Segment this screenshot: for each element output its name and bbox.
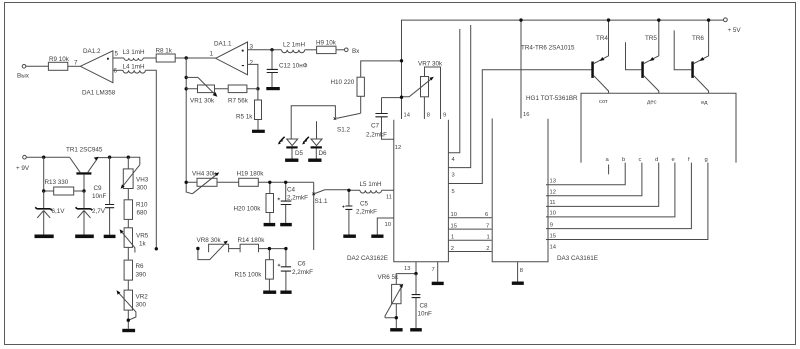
- svg-text:L5 1mH: L5 1mH: [360, 181, 383, 188]
- ground R5: [252, 130, 265, 133]
- svg-text:HG1 TOT-5361BR: HG1 TOT-5361BR: [526, 95, 578, 102]
- svg-text:VR2: VR2: [136, 294, 149, 301]
- svg-text:3: 3: [452, 173, 455, 179]
- svg-text:1k: 1k: [139, 241, 147, 248]
- svg-text:7: 7: [432, 267, 435, 273]
- terminal +9V: [16, 155, 30, 172]
- svg-text:680: 680: [137, 210, 148, 217]
- svg-text:7: 7: [74, 60, 78, 67]
- ground C5: [343, 235, 356, 238]
- capacitor C9 10nF: [92, 157, 114, 235]
- svg-text:C12 10нФ: C12 10нФ: [279, 63, 308, 70]
- LED D5: [278, 137, 304, 159]
- svg-text:D6: D6: [319, 150, 328, 157]
- wire pin8: [423, 97, 425, 119]
- svg-text:R5 1k: R5 1k: [236, 114, 253, 121]
- wire pin7 to ground: [437, 262, 439, 282]
- wire pin3 out: [248, 49, 282, 51]
- svg-text:6: 6: [114, 68, 118, 75]
- trimmer VR2 300: [117, 280, 149, 320]
- wire pin16 riser: [520, 20, 522, 118]
- transistor TR4: [591, 20, 608, 93]
- segment a stub: [608, 165, 610, 175]
- inductor L2 1mH: [282, 42, 306, 53]
- svg-text:ед: ед: [701, 100, 708, 106]
- svg-text:дес: дес: [647, 100, 657, 106]
- svg-text:C6: C6: [298, 261, 307, 268]
- svg-text:d: d: [655, 157, 658, 163]
- ground zener1: [35, 235, 54, 239]
- svg-text:DA3 CA3161E: DA3 CA3161E: [557, 255, 598, 262]
- transistor TR1 2SC945: [66, 147, 110, 192]
- wire: [143, 57, 156, 59]
- wire +9V rail: [26, 156, 69, 158]
- wire C4/H19 row: [186, 181, 314, 183]
- wire DA2 pin15 to DA3 pin7: [448, 228, 491, 230]
- capacitor C8 10nF: [412, 274, 432, 329]
- svg-text:VR8 30k: VR8 30k: [197, 237, 222, 244]
- svg-text:+ 5V: + 5V: [728, 27, 742, 34]
- svg-text:DA1.1: DA1.1: [214, 41, 232, 48]
- wire S1.1 common vertical: [313, 182, 315, 250]
- svg-text:13: 13: [550, 179, 556, 185]
- capacitor C6 2,2mkF: [278, 249, 313, 291]
- op-amp DA1.2: [74, 48, 119, 97]
- trimmer VH3 300: [121, 157, 149, 191]
- svg-text:12: 12: [550, 190, 556, 196]
- svg-text:TR6: TR6: [692, 35, 704, 42]
- svg-text:VR7 30k: VR7 30k: [418, 61, 443, 68]
- wire pin3 riser: [448, 25, 470, 168]
- svg-text:10: 10: [451, 212, 457, 218]
- transistor TR6: [674, 20, 708, 93]
- svg-text:VR6 5k: VR6 5k: [378, 274, 400, 281]
- svg-text:1: 1: [487, 235, 490, 241]
- svg-text:14: 14: [550, 244, 557, 250]
- wire DA3 pin15 to segment g: [546, 163, 708, 240]
- ground zener2: [75, 235, 94, 239]
- svg-text:2,2mkF: 2,2mkF: [292, 269, 313, 276]
- wire: [229, 248, 241, 250]
- potentiometer VR6 5k: [378, 274, 416, 329]
- wire pin4 riser: [448, 29, 459, 153]
- IC DA2 CA3162E: [347, 113, 448, 263]
- wire to node A: [175, 57, 215, 59]
- svg-text:11: 11: [386, 195, 392, 201]
- switch S1.2: [334, 113, 361, 133]
- svg-text:2,2mkF: 2,2mkF: [366, 132, 387, 139]
- svg-text:VR1 30k: VR1 30k: [190, 98, 215, 105]
- svg-text:6,1V: 6,1V: [52, 208, 66, 215]
- resistor H10 220: [331, 61, 402, 113]
- inductor L5 1mH: [349, 181, 394, 193]
- trimmer VR5 1k: [120, 219, 149, 252]
- svg-text:8: 8: [520, 268, 523, 274]
- zener diode 2,7V: [76, 191, 106, 235]
- ground C6: [280, 291, 291, 294]
- svg-text:H10 220: H10 220: [331, 79, 355, 86]
- svg-text:300: 300: [136, 302, 147, 309]
- svg-text:C5: C5: [360, 201, 369, 208]
- resistor H19 180k: [237, 171, 265, 187]
- switch S1.1: [312, 190, 349, 205]
- svg-text:9: 9: [443, 113, 446, 119]
- ground pin10: [371, 235, 383, 238]
- svg-text:H20 100k: H20 100k: [234, 206, 262, 213]
- wire pin2 to feedback: [248, 64, 258, 88]
- svg-text:6: 6: [485, 212, 488, 218]
- svg-text:12: 12: [395, 145, 401, 151]
- svg-text:C7: C7: [371, 123, 380, 130]
- capacitor C12 10nF: [267, 50, 308, 87]
- ground D6: [308, 159, 321, 162]
- svg-text:11: 11: [550, 200, 556, 206]
- svg-text:10: 10: [550, 211, 556, 217]
- resistor H20 100k: [234, 182, 274, 223]
- resistor R9 10k: [48, 56, 69, 70]
- svg-text:L3 1mH: L3 1mH: [123, 49, 146, 56]
- ground pin7: [432, 282, 444, 285]
- potentiometer VR1 30k: [186, 77, 217, 104]
- svg-text:TR4: TR4: [596, 35, 608, 42]
- svg-text:DA1 LM358: DA1 LM358: [82, 90, 116, 97]
- ground C9: [104, 235, 116, 238]
- resistor R10 680: [124, 189, 148, 220]
- svg-text:8: 8: [427, 113, 430, 119]
- svg-text:D5: D5: [295, 150, 304, 157]
- ground C4: [280, 223, 292, 226]
- wire DA2 pin10 to DA3 pin6: [448, 217, 491, 219]
- potentiometer VR7 30k: [402, 61, 444, 120]
- svg-text:e: e: [672, 157, 675, 163]
- svg-text:+ 9V: + 9V: [16, 165, 30, 172]
- transistor TR5: [626, 20, 659, 93]
- wire DA3 pin13 to segment b: [546, 163, 625, 185]
- wire pin5: [113, 57, 124, 59]
- wire DA3 pin9 to segment f: [546, 163, 691, 229]
- resistor R7 56k: [228, 85, 249, 105]
- resistor R14 180k: [238, 237, 266, 252]
- node C12 junction: [270, 48, 273, 51]
- svg-text:R15 100k: R15 100k: [235, 272, 263, 279]
- wire: [26, 65, 48, 67]
- svg-text:2,7V: 2,7V: [92, 208, 106, 215]
- svg-text:15: 15: [550, 233, 556, 239]
- node feedback junction: [256, 87, 259, 90]
- capacitor C5 2,2mkF: [342, 190, 377, 234]
- svg-text:H9 10k: H9 10k: [316, 40, 337, 47]
- svg-text:H19 180k: H19 180k: [237, 171, 265, 178]
- svg-text:VH3: VH3: [136, 177, 149, 184]
- inductor L3 1mH: [123, 49, 146, 60]
- svg-text:S1.2: S1.2: [337, 127, 350, 134]
- svg-text:VR5: VR5: [136, 233, 149, 240]
- svg-text:2: 2: [250, 60, 254, 67]
- inductor L4 1mH: [123, 64, 146, 74]
- wire DA2 pin1 to DA3 pin1: [448, 239, 491, 241]
- svg-text:VH4 30k: VH4 30k: [192, 171, 217, 178]
- svg-text:2: 2: [451, 246, 454, 252]
- wire node A vertical: [185, 58, 187, 182]
- ground C8: [410, 328, 422, 331]
- resistor R15 100k: [235, 249, 274, 291]
- wire DA3 pin12 to segment c: [546, 163, 642, 196]
- svg-text:2,2mkF: 2,2mkF: [287, 195, 308, 202]
- wire pin10 to ground: [377, 218, 394, 235]
- ground H20: [264, 223, 276, 226]
- svg-text:15: 15: [451, 223, 457, 229]
- resistor R5 1k: [236, 89, 262, 130]
- svg-text:7: 7: [486, 223, 489, 229]
- svg-text:390: 390: [136, 272, 147, 279]
- wire chain bottom: [127, 310, 129, 329]
- svg-text:L2 1mH: L2 1mH: [283, 42, 306, 49]
- svg-text:R6: R6: [136, 263, 145, 270]
- svg-text:Вых: Вых: [17, 73, 30, 80]
- resistor R6 390: [124, 247, 146, 280]
- svg-text:b: b: [622, 157, 625, 163]
- wire pin13: [415, 262, 417, 274]
- resistor R8 1k: [156, 48, 176, 63]
- op-amp DA1.1: [210, 41, 254, 75]
- resistor R13 330: [44, 157, 84, 195]
- wire DA3 pin11 to segment d: [546, 163, 659, 207]
- potentiometer VR8 30k: [197, 237, 229, 260]
- svg-text:5: 5: [452, 189, 455, 195]
- svg-text:10nF: 10nF: [92, 193, 107, 200]
- svg-text:g: g: [705, 157, 708, 163]
- svg-text:9: 9: [550, 222, 553, 228]
- svg-text:Вх: Вх: [352, 48, 360, 55]
- svg-text:2: 2: [486, 246, 489, 252]
- svg-text:C8: C8: [420, 303, 429, 310]
- ground C12: [266, 87, 280, 90]
- resistor H9 10k: [316, 40, 337, 54]
- svg-text:C9: C9: [94, 185, 103, 192]
- capacitor C4 2,2mkF: [278, 182, 309, 223]
- svg-text:C4: C4: [287, 187, 296, 194]
- svg-text:1: 1: [210, 51, 214, 58]
- wire pin14 riser / +5V corner: [402, 20, 724, 119]
- ground R15: [263, 291, 276, 294]
- wire pin5 to TR4 base: [448, 70, 591, 184]
- zener diode 6,1V: [35, 191, 65, 235]
- terminal Vh (input): [345, 48, 361, 55]
- svg-text:1: 1: [451, 235, 454, 241]
- IC DA3 CA3161E: [492, 119, 598, 263]
- svg-text:16: 16: [523, 112, 529, 118]
- terminal +5V: [724, 18, 742, 34]
- svg-text:13: 13: [404, 266, 410, 272]
- svg-text:L4 1mH: L4 1mH: [123, 64, 146, 71]
- svg-text:R8 1k: R8 1k: [156, 48, 173, 55]
- wire emitter rail: [110, 157, 140, 165]
- ground VR6: [390, 328, 402, 331]
- svg-text:DA1.2: DA1.2: [83, 48, 101, 55]
- terminal Vyh (output): [17, 65, 30, 80]
- ground DA3 pin8: [512, 282, 524, 285]
- display HG1 TOT-5361BR: [526, 93, 736, 162]
- node A junction: [185, 56, 188, 59]
- svg-text:TR5: TR5: [645, 35, 657, 42]
- ground chain: [122, 329, 135, 332]
- svg-text:R7 56k: R7 56k: [228, 98, 249, 105]
- potentiometer VH4 30k: [186, 171, 219, 194]
- svg-text:2,2mkF: 2,2mkF: [356, 209, 377, 216]
- svg-text:5: 5: [115, 51, 119, 58]
- svg-text:10nF: 10nF: [418, 311, 433, 318]
- wire: [336, 49, 345, 51]
- wire: [259, 248, 286, 250]
- svg-text:R10: R10: [136, 202, 148, 209]
- wire pin6: [113, 69, 123, 71]
- svg-text:300: 300: [137, 185, 148, 192]
- svg-text:c: c: [639, 157, 642, 163]
- wire: [305, 49, 317, 51]
- svg-text:DA2 CA3162E: DA2 CA3162E: [347, 255, 388, 262]
- capacitor C7 2,2mkF: [366, 98, 402, 140]
- ground D5: [285, 159, 298, 162]
- wire DA2 pin2 to DA3 pin2: [448, 251, 491, 253]
- svg-text:R9 10k: R9 10k: [49, 56, 70, 63]
- svg-text:TR1 2SC945: TR1 2SC945: [66, 147, 103, 154]
- svg-text:14: 14: [404, 113, 411, 119]
- svg-text:S1.1: S1.1: [315, 198, 328, 205]
- wire DA3 pin10 to segment e: [546, 163, 675, 217]
- node dead-end dot: [155, 247, 158, 250]
- LED D6: [302, 121, 327, 158]
- svg-text:TR4-TR6 2SA1015: TR4-TR6 2SA1015: [521, 45, 575, 52]
- svg-text:сот: сот: [599, 99, 608, 105]
- wire LED top: [291, 106, 335, 139]
- svg-text:10: 10: [385, 222, 391, 228]
- wire L4 to vertical: [145, 70, 156, 249]
- segment letters a-g: [606, 157, 708, 163]
- svg-text:R14 180k: R14 180k: [238, 237, 266, 244]
- wire pin8 DA3 to ground: [517, 262, 519, 282]
- wire: [68, 65, 81, 67]
- svg-text:R13 330: R13 330: [45, 179, 69, 186]
- wire feedback row: [186, 88, 258, 90]
